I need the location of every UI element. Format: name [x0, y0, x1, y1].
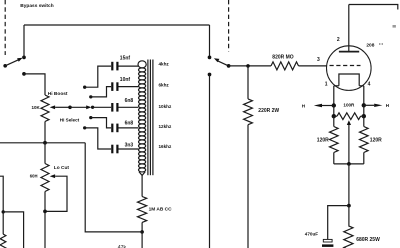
wire SW1b pivot right — [229, 65, 271, 67]
svg-text:16khz: 16khz — [159, 144, 172, 149]
wire cathode down — [348, 164, 350, 206]
wire Lo Cut node to bottom edge — [44, 211, 46, 248]
wire top rail — [24, 24, 210, 26]
bypass switch SW1a contact top — [22, 56, 26, 60]
hi select contact 3 — [91, 106, 94, 109]
hi select contact 2 — [89, 95, 92, 98]
tube heater — [339, 74, 359, 86]
resistor 680R 25W (clipped) — [344, 226, 353, 248]
humdinger wiper arrow — [347, 120, 351, 125]
svg-text:Hi Boost: Hi Boost — [48, 91, 68, 97]
svg-text:6n8: 6n8 — [125, 120, 134, 126]
svg-text:120R: 120R — [317, 137, 329, 143]
resistor 1M AB CC — [138, 197, 147, 223]
junction 100R left — [332, 114, 336, 118]
hi select switch pivot — [68, 106, 72, 110]
wire junction down to Lo Cut pot — [44, 143, 46, 164]
wire contact3 to C3 — [93, 106, 112, 108]
svg-text:12khz: 12khz — [159, 124, 172, 129]
svg-text:H: H — [386, 103, 390, 108]
wire contact2 to C2 — [91, 87, 111, 97]
tube anode plate — [339, 51, 359, 53]
svg-text:Hi Select: Hi Select — [60, 118, 80, 123]
resistor 120R right — [363, 116, 365, 126]
svg-text:100R: 100R — [343, 102, 355, 107]
tube anode lead — [348, 5, 350, 52]
hi select contact 5 — [83, 126, 86, 129]
hi select contact 4 — [89, 116, 92, 119]
junction 820R/220R — [246, 64, 250, 68]
capacitor C5 3n3 — [111, 145, 113, 154]
heater arrow left — [314, 104, 322, 107]
svg-text:6n8: 6n8 — [125, 98, 134, 104]
svg-text:208: 208 — [366, 43, 374, 49]
wire heater legs down — [333, 106, 335, 117]
pot 60H wiper arrow — [50, 174, 55, 178]
wire y143 corner down — [85, 143, 142, 232]
bypass switch SW1b pivot — [227, 64, 231, 68]
svg-text:820R MO: 820R MO — [272, 55, 294, 61]
svg-text:10K: 10K — [32, 105, 41, 110]
wire contact5 to C5 — [85, 128, 111, 149]
svg-text:2: 2 — [337, 37, 340, 43]
svg-text:15nf: 15nf — [120, 56, 131, 62]
svg-text:1M AB CC: 1M AB CC — [149, 206, 173, 212]
svg-text:6khz: 6khz — [159, 83, 170, 88]
inductor core lines — [147, 60, 149, 176]
wire from left edge — [0, 176, 3, 212]
capacitor C3 6n8 — [111, 103, 113, 112]
potentiometer 10K Hi Boost body — [41, 95, 49, 122]
node left bottom — [2, 210, 5, 213]
resistor 820R MO — [271, 62, 299, 70]
svg-text:3: 3 — [317, 57, 320, 63]
wire contact-top to top rail — [23, 25, 25, 57]
wire 220R down to edge — [247, 125, 249, 248]
heater arrow right — [364, 104, 374, 106]
wire SW1a bottom contact to pot — [24, 74, 45, 95]
junction heater left — [332, 103, 336, 107]
junction heater right — [362, 103, 366, 107]
svg-text:10khz: 10khz — [159, 104, 172, 109]
wire contact1 to C1 — [85, 66, 111, 87]
wire 820R to grid — [299, 65, 327, 67]
svg-text:Lo Cut: Lo Cut — [54, 165, 70, 171]
svg-text:120R: 120R — [370, 137, 382, 143]
svg-text:Bypass switch: Bypass switch — [20, 3, 53, 9]
wire contact4 to C4 — [91, 118, 111, 128]
wire node down to edge — [141, 232, 143, 248]
wire to R 680R — [348, 206, 350, 226]
capacitor C2 10nf — [111, 82, 113, 91]
wire pot 60H bottom to node — [44, 192, 46, 212]
potentiometer 100R humdinger — [334, 115, 337, 117]
svg-text:10nf: 10nf — [120, 77, 131, 83]
hi select contact 1 — [83, 86, 86, 89]
svg-text:220R 2W: 220R 2W — [258, 108, 279, 114]
wire y143 rail — [0, 142, 85, 144]
bypass switch linkage (dashed) right — [228, 0, 230, 52]
capacitor C4 6n8 — [111, 124, 113, 133]
svg-text:680R 25W: 680R 25W — [356, 237, 380, 243]
node Lo Cut — [43, 210, 47, 214]
hi select switch lever — [70, 106, 87, 108]
svg-text:60H: 60H — [30, 174, 38, 179]
wire anode rail to right edge — [349, 5, 398, 10]
wire left node right and down — [3, 212, 23, 248]
pot 10K wiper arrow — [50, 105, 55, 109]
resistor 220R 2W — [244, 99, 253, 125]
resistor left bottom (clipped) — [2, 212, 4, 234]
wire to C6 — [328, 206, 349, 240]
svg-text:4khz: 4khz — [159, 61, 170, 66]
bypass switch SW1a pivot — [3, 64, 7, 68]
capacitor C1 15nf — [111, 62, 113, 71]
wire top rail down to SW1b — [209, 25, 211, 57]
node below 1M — [140, 230, 144, 234]
tube V1 envelope — [327, 46, 372, 91]
wire pot bottom to junction — [44, 122, 46, 143]
potentiometer 60H Lo Cut body — [41, 164, 49, 192]
bypass switch SW1b contact top — [208, 56, 212, 60]
capacitor C6 470uF electrolytic — [323, 239, 332, 242]
inductor L1 tapped coil — [138, 61, 146, 68]
bypass switch SW1b lever — [217, 61, 229, 66]
bypass switch linkage (dashed) left — [4, 0, 6, 55]
junction y143/pot — [43, 141, 47, 145]
wire cathode bottom rail — [334, 163, 364, 165]
junction 100R right — [362, 114, 366, 118]
cut-off mark right edge — [393, 25, 396, 28]
svg-text:1: 1 — [325, 81, 328, 87]
tube grid (dashed) — [330, 65, 361, 67]
wire 1M to node — [141, 222, 143, 232]
svg-text:3n3: 3n3 — [125, 142, 134, 148]
junction cathode RC — [347, 204, 351, 208]
cut-off dots after 208 — [379, 43, 380, 45]
bypass switch SW1a contact bottom — [22, 72, 26, 76]
svg-text:4: 4 — [368, 81, 371, 87]
svg-text:470uF: 470uF — [305, 231, 318, 236]
wire junction down to 220R — [247, 66, 249, 99]
bypass switch SW1b contact bottom — [208, 73, 212, 77]
junction cathode — [347, 162, 351, 166]
bypass switch SW1a lever — [5, 59, 19, 65]
svg-text:H: H — [302, 103, 306, 108]
wire SW1b bottom contact down — [209, 75, 211, 248]
resistor 120R left — [333, 116, 335, 126]
